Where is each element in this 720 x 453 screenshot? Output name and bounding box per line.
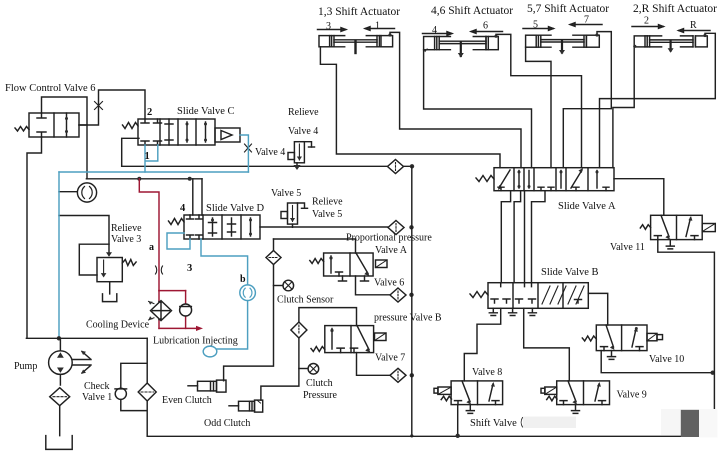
filter diamond on return <box>138 383 156 401</box>
supply rail y178.8 <box>86 178 202 180</box>
svg-text:Slide Valve C: Slide Valve C <box>177 106 235 117</box>
svg-text:2,R Shift Actuator: 2,R Shift Actuator <box>633 3 717 15</box>
valve 10 solenoid <box>647 333 663 340</box>
wire slide valve B to valve 9 <box>524 308 570 381</box>
svg-text:a: a <box>149 242 154 253</box>
even clutch cylinder <box>188 380 226 392</box>
wire actuator 2,R left to Slide Valve A port8 <box>613 47 634 168</box>
svg-text:Valve A: Valve A <box>375 245 408 256</box>
svg-text:Even Clutch: Even Clutch <box>162 395 212 406</box>
diamond on clutch sensor line <box>266 251 281 265</box>
actuator 4,6 arrow 4 <box>423 25 453 36</box>
watermark faint box near shift valve <box>523 417 576 429</box>
slide valve C body <box>138 119 215 145</box>
slide valve A spring <box>476 176 494 182</box>
slide valve B spring <box>470 292 488 298</box>
actuator 1,3 arrow 1 <box>365 21 395 32</box>
proportional valve A body <box>324 253 374 276</box>
clutch pressure sensor stub <box>299 364 319 375</box>
svg-text:Clutch Sensor: Clutch Sensor <box>277 295 334 306</box>
proportional valve A spring <box>310 259 324 264</box>
actuator 2,R cylinder <box>634 36 707 53</box>
relieve valve 3 body <box>97 258 122 282</box>
svg-text:Slide Valve A: Slide Valve A <box>558 201 616 212</box>
svg-text:Clutch: Clutch <box>306 378 333 389</box>
main pressure line y166 <box>122 165 412 167</box>
valve A exhaust T <box>339 276 369 281</box>
slide valve B exhaust tanks <box>489 308 497 315</box>
svg-text:Lubrication Injecting: Lubrication Injecting <box>153 336 238 347</box>
svg-text:5,7 Shift Actuator: 5,7 Shift Actuator <box>527 3 609 15</box>
svg-text:Slide Valve B: Slide Valve B <box>541 267 599 278</box>
check valve 1 circle <box>115 388 127 399</box>
valve 9 solenoid <box>541 387 557 394</box>
slide valve A body <box>494 168 614 191</box>
blue pilot from valve C body port 1 <box>145 145 158 172</box>
cooling device diamond <box>149 301 172 321</box>
check valve circle on red branch <box>180 304 192 316</box>
actuator 4,6 cylinder <box>424 37 499 58</box>
blue pilot from valve C pilot box <box>240 135 248 172</box>
wires slide valve A bottom to slide valve B top <box>501 191 510 283</box>
flow control valve 6 body <box>29 113 79 137</box>
actuator 2,R arrow 2 <box>632 16 664 29</box>
svg-text:4,6 Shift Actuator: 4,6 Shift Actuator <box>431 5 513 17</box>
slide valve C pilot box <box>215 128 240 142</box>
watermark light gray block right <box>699 409 718 438</box>
svg-text:Valve 10: Valve 10 <box>649 354 684 365</box>
vertical collector rail x412 <box>411 166 413 436</box>
svg-text:Valve 11: Valve 11 <box>610 242 645 253</box>
diamond on valve 6 output <box>390 288 406 302</box>
valve 9 body <box>557 381 610 405</box>
wires supply rail to slide valve D top <box>193 179 202 215</box>
wire slide valve B to valve 8 <box>464 308 500 381</box>
wire actuator 2,R right to Slide Valve A port7 <box>600 33 716 167</box>
junction triangle under relieve valve 4 <box>296 163 298 166</box>
svg-text:Valve 6: Valve 6 <box>374 278 404 289</box>
relieve valve 3 spring <box>122 260 136 266</box>
wire actuator 4,6 right to Slide Valve A port6 <box>496 34 582 167</box>
wire blue tee to relieve valve 3 <box>59 216 109 256</box>
pump drive shaft symbol <box>72 351 91 374</box>
svg-text:Valve 5: Valve 5 <box>271 188 301 199</box>
wire actuator 5,7 left to Slide Valve A port4 <box>526 47 551 168</box>
wire slide valve C left port to main line <box>122 138 139 166</box>
check valve 1 loop <box>121 338 147 435</box>
valve 9 spring <box>547 396 557 401</box>
valve 8 spring <box>441 396 451 401</box>
svg-text:Relieve: Relieve <box>288 107 319 118</box>
cooler circle b <box>240 285 256 301</box>
lubrication nozzle ellipse <box>203 346 217 357</box>
svg-text:4: 4 <box>432 25 437 36</box>
slide valve C spring <box>123 123 139 129</box>
svg-text:Valve 1: Valve 1 <box>82 392 112 403</box>
actuator 5,7 cylinder <box>526 35 600 54</box>
valve 11 bottom port to right rail <box>658 240 715 437</box>
diamond coupling on main line <box>388 160 404 174</box>
svg-text:Flow Control Valve 6: Flow Control Valve 6 <box>5 83 96 94</box>
svg-text:1: 1 <box>375 21 380 32</box>
svg-text:Odd Clutch: Odd Clutch <box>204 418 250 429</box>
valve A output to junction <box>356 276 390 295</box>
svg-text:Shift Valve: Shift Valve <box>470 418 517 429</box>
svg-text:b: b <box>240 274 246 285</box>
wire actuator 5,7 right to Slide Valve A port5 <box>563 32 611 168</box>
slide valve A output to valve 11 <box>614 179 664 216</box>
valve 8 solenoid <box>434 387 451 394</box>
valve 10 spring <box>582 336 596 341</box>
wire actuator 1,3 right to Slide Valve A port2 <box>390 32 521 167</box>
valve 9 exhaust tank below <box>572 405 580 414</box>
throttle X on riser <box>95 102 103 110</box>
actuator 1,3 arrow 3 <box>318 21 347 32</box>
wire FCV bottom to left rail <box>27 137 42 338</box>
valve 10 output to right rail <box>601 351 713 373</box>
relieve valve 3 pilot loop <box>79 244 109 275</box>
svg-text:2: 2 <box>644 16 649 27</box>
odd clutch cylinder <box>229 400 263 412</box>
junction pump top <box>57 336 61 340</box>
svg-text:R: R <box>690 20 697 31</box>
actuator 5,7 arrow 5 <box>523 20 554 31</box>
pump tank <box>46 406 72 450</box>
clutch sensor stub and symbol <box>274 280 294 291</box>
valve 10 exhaust tank below <box>608 351 616 360</box>
svg-text:Relieve: Relieve <box>312 197 343 208</box>
pump circle <box>49 338 73 385</box>
throttle X valve 4 on blue pilot line <box>245 144 252 152</box>
valve 11 spring <box>640 225 650 230</box>
svg-text:Pressure: Pressure <box>303 390 337 401</box>
svg-text:2: 2 <box>147 107 152 118</box>
valve 8 body <box>451 381 503 405</box>
watermark light gray block left <box>661 409 681 435</box>
svg-text:Valve 9: Valve 9 <box>617 390 647 401</box>
actuator 5,7 arrow 7 <box>570 15 602 27</box>
svg-text:Relieve: Relieve <box>111 223 142 234</box>
wire actuator 4,6 left to Slide Valve A port3 <box>424 50 532 168</box>
svg-text:Pump: Pump <box>14 361 37 372</box>
valve 8 exhaust tank below <box>466 405 474 414</box>
valve 11 solenoid <box>702 224 715 232</box>
svg-text:1: 1 <box>145 151 150 162</box>
clutch sensor line from valve D area down <box>224 263 274 381</box>
watermark dark gray block <box>681 410 699 437</box>
orifice on red line <box>156 266 163 274</box>
svg-text:Valve 4: Valve 4 <box>255 147 285 158</box>
diamond on clutch line <box>291 322 307 338</box>
slide valve D output to diamond and vertical rail <box>260 226 388 228</box>
valve 11 exhaust tank below <box>666 240 674 249</box>
svg-text:3: 3 <box>187 263 192 274</box>
svg-text:Slide Valve D: Slide Valve D <box>206 203 265 214</box>
relieve valve 4 symbol <box>288 142 315 163</box>
slide valve B body <box>488 283 588 309</box>
svg-text:Valve 8: Valve 8 <box>472 367 502 378</box>
actuator 1,3 cylinder <box>319 36 393 53</box>
valve 7 output to junction <box>357 353 391 376</box>
actuator 4,6 arrow 6 <box>471 21 503 34</box>
clutch pressure line down to odd clutch <box>261 338 299 400</box>
actuator 2,R arrow R <box>679 20 711 32</box>
relieve valve 3 tank <box>103 282 117 302</box>
gauge circle <box>59 183 97 202</box>
svg-text:Valve 3: Valve 3 <box>111 234 141 245</box>
valve 7 solenoid <box>375 333 387 341</box>
svg-text:Check: Check <box>84 381 110 392</box>
svg-text:Valve 7: Valve 7 <box>375 353 405 364</box>
relieve valve 5 symbol <box>281 203 308 227</box>
flow control valve 6 spring <box>15 127 29 132</box>
valve B pilot loop top <box>299 308 357 326</box>
bottom return rail <box>147 435 713 437</box>
proportional valve A solenoid <box>376 260 388 268</box>
svg-text:Proportional pressure: Proportional pressure <box>346 233 432 244</box>
pilot branch y239 from clutch-sensor line to prop valve A <box>274 239 356 253</box>
wire actuator 1,3 left to Slide Valve A port1 <box>320 47 500 168</box>
blue slide valve D drain loop <box>167 233 248 349</box>
slide valve D body <box>184 215 260 239</box>
svg-text:Cooling Device: Cooling Device <box>86 320 150 331</box>
valve 8 bottom port to return rail <box>457 405 459 437</box>
blue supply line horizontal <box>59 135 248 338</box>
diamond coupling on valve D output <box>388 221 404 235</box>
diamond on valve 7 output <box>390 368 406 382</box>
svg-text:4: 4 <box>180 203 186 214</box>
valve 11 body <box>651 215 703 239</box>
wire FCV right port to throttle riser <box>79 90 145 125</box>
wire slide valve B to valve 10 <box>588 293 607 325</box>
svg-text:pressure Valve B: pressure Valve B <box>374 313 442 324</box>
svg-text:3: 3 <box>326 21 331 32</box>
valve 7 spring <box>311 347 325 352</box>
pressure valve B (valve 7) body <box>325 326 374 353</box>
svg-text:Valve 4: Valve 4 <box>288 126 318 137</box>
svg-text:1,3 Shift Actuator: 1,3 Shift Actuator <box>318 6 400 18</box>
red line from supply rail to cooling device <box>139 179 198 329</box>
wire supply rail drop x87 <box>86 125 88 179</box>
svg-text:6: 6 <box>483 21 488 32</box>
pump suction filter diamond <box>50 388 70 406</box>
suction horizontal line <box>26 337 147 339</box>
slide valve D spring <box>169 219 185 225</box>
wire FCV top loop to right port <box>42 97 88 125</box>
valve 10 body <box>596 325 647 351</box>
svg-text:Valve 5: Valve 5 <box>312 209 342 220</box>
